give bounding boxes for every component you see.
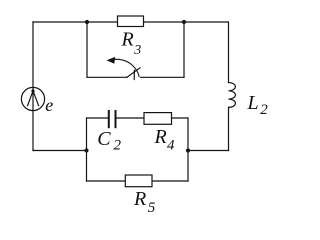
wire middle branch right vertical [187,118,189,151]
svg-text:4: 4 [167,137,175,153]
switch arrowhead [107,57,116,64]
wire bottom-left rail [33,150,87,152]
switch contact tick [133,70,135,79]
wire left side [32,22,34,151]
resistor R4 [144,113,172,125]
svg-text:3: 3 [133,43,141,58]
wire right side lower [228,107,230,150]
capacitor C2 left plate [108,111,110,127]
svg-text:R: R [154,126,167,148]
source arrow apex dot [31,89,34,92]
capacitor C2 right plate [115,111,117,127]
wire middle branch top left segment [87,117,109,119]
svg-text:2: 2 [114,137,122,153]
svg-text:2: 2 [260,102,268,118]
wire right side upper [228,22,230,83]
wire lower branch right vertical [187,151,189,182]
node junction mid-right [186,148,190,152]
wire switch branch right vertical [183,22,185,77]
node junction top-right [182,20,186,24]
wire switch left segment [87,76,127,78]
inductor L2 [229,83,236,108]
wire switch right segment [141,76,185,78]
wire switch branch left vertical [86,22,88,77]
source arrow legs [28,91,39,106]
svg-text:R: R [133,188,146,210]
switch blade [127,68,140,78]
resistor R5 [125,175,152,187]
wire top rail [33,21,228,23]
wire lower branch left vertical [86,151,88,182]
wire bottom-right rail [188,150,229,152]
source circle e [21,87,44,110]
svg-text:e: e [45,95,53,115]
svg-text:L: L [247,92,259,114]
resistor R3 [118,16,144,27]
svg-text:R: R [121,29,134,51]
svg-text:5: 5 [148,200,156,216]
wire middle branch top right segment [116,117,188,119]
svg-text:C: C [97,128,111,150]
switch motion arc [113,59,139,76]
node junction top-left [85,20,89,24]
wire lower branch bottom rail [87,180,189,182]
node junction mid-left [84,148,88,152]
wire middle branch left vertical [86,118,88,151]
